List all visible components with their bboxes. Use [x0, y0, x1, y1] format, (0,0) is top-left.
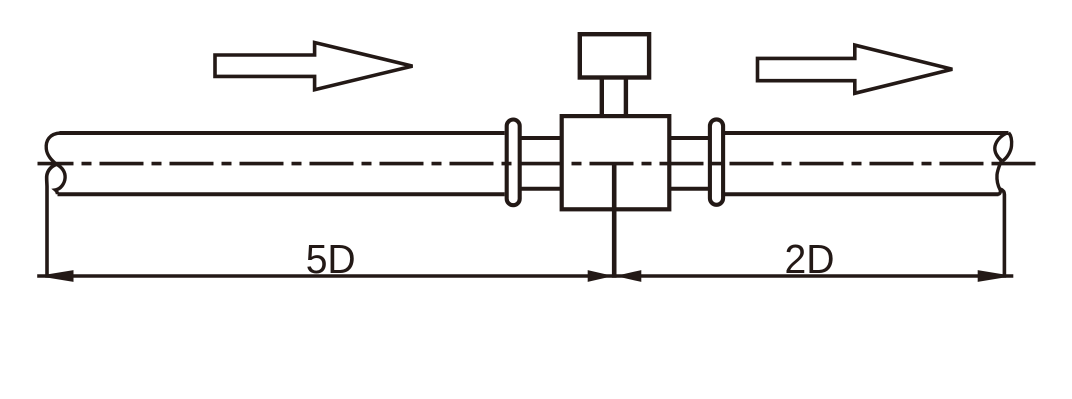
dimension arrowhead right (points right)	[978, 270, 1014, 282]
left pipe break	[46, 133, 65, 194]
svg-text:5D: 5D	[306, 236, 356, 282]
right pipe break	[995, 133, 1009, 195]
connector stub downstream top	[671, 136, 708, 140]
pipe upstream bottom line	[58, 192, 505, 196]
meter stem left line	[600, 78, 604, 117]
display head	[580, 34, 649, 77]
pipe downstream bottom line	[725, 192, 999, 196]
meter stem right line	[624, 78, 628, 117]
dimension arrowhead left (points left)	[38, 270, 74, 282]
connector stub upstream bottom	[522, 187, 561, 191]
meter body	[562, 116, 670, 209]
svg-text:2D: 2D	[785, 236, 835, 282]
connector stub downstream bottom	[671, 187, 708, 191]
flange F1 (upstream)	[507, 120, 520, 206]
dimension arrowhead center-right (points left)	[615, 270, 641, 282]
extension line left	[47, 164, 57, 277]
dimension line	[37, 274, 1013, 277]
connector stub upstream top	[522, 136, 561, 140]
right pipe break leaf edge	[1003, 133, 1012, 161]
left flow arrow	[215, 43, 413, 90]
centerline dash-dot	[74, 162, 1000, 166]
pipe downstream top line	[725, 131, 1009, 135]
dimension arrowhead center-left (points right)	[588, 270, 614, 282]
centerline left tick	[38, 162, 74, 166]
pipe upstream top line	[60, 131, 505, 135]
extension line right	[1001, 189, 1005, 278]
flange F2 (downstream)	[710, 119, 723, 204]
extension line center	[612, 164, 617, 278]
right flow arrow	[758, 45, 953, 93]
centerline right tick	[1000, 162, 1036, 166]
